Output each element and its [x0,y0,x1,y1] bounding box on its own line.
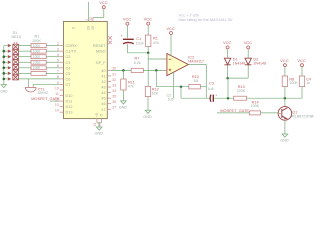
svg-text:MISO: MISO [96,50,106,54]
svg-text:MOSFET_GATE: MOSFET_GATE [31,96,60,101]
svg-text:VCC: VCC [280,58,289,63]
svg-text:MAX9117: MAX9117 [188,60,204,64]
svg-text:15: 15 [93,123,97,127]
svg-text:VCC: VCC [123,16,132,21]
svg-text:42: 42 [101,80,105,84]
svg-text:1u5: 1u5 [208,87,214,91]
svg-text:C0/RX: C0/RX [66,44,78,48]
svg-text:10uF: 10uF [136,41,145,45]
svg-text:100K: 100K [33,66,41,70]
svg-text:C3: C3 [209,82,214,86]
svg-text:HE10: HE10 [12,35,22,39]
svg-text:D11: D11 [66,100,73,104]
svg-text:41: 41 [101,74,105,78]
svg-text:100K: 100K [33,61,41,65]
svg-text:GP_F: GP_F [96,61,107,65]
svg-text:1u: 1u [306,81,310,85]
svg-text:C4: C4 [66,66,71,70]
svg-text:C7: C7 [66,83,71,87]
svg-text:36: 36 [112,100,116,104]
svg-text:100K: 100K [32,39,41,43]
svg-text:32: 32 [112,78,116,82]
svg-text:1M: 1M [193,79,198,83]
svg-text:Max rating for the MAX1811 5V: Max rating for the MAX1811 5V [179,17,233,22]
svg-text:C1/TX: C1/TX [66,50,77,54]
svg-text:GND: GND [280,139,289,143]
svg-text:D12: D12 [66,105,73,109]
svg-text:6.2k: 6.2k [134,61,141,65]
svg-text:37: 37 [112,106,116,110]
svg-text:9: 9 [72,27,76,29]
svg-text:100K: 100K [33,55,41,59]
svg-text:D10: D10 [66,94,73,98]
svg-text:43: 43 [101,86,105,90]
svg-text:100K: 100K [33,44,41,48]
svg-text:GND: GND [95,132,104,136]
svg-text:10: 10 [91,26,95,30]
svg-text:C6: C6 [66,77,71,81]
svg-text:GND: GND [143,115,152,119]
svg-text:1u5: 1u5 [168,97,174,101]
svg-text:R7: R7 [135,57,140,61]
svg-text:C5: C5 [66,72,71,76]
svg-text:220K: 220K [237,89,246,93]
svg-text:100K: 100K [289,81,298,85]
svg-text:-5: -5 [99,114,103,117]
svg-text:VCC: VCC [297,58,306,63]
svg-text:13: 13 [55,103,59,107]
svg-text:RESET: RESET [93,44,106,48]
svg-text:1N4148: 1N4148 [253,62,266,66]
svg-text:62K: 62K [152,92,159,96]
svg-text:C3: C3 [66,61,71,65]
svg-text:46: 46 [101,102,105,106]
svg-text:R1: R1 [35,35,40,39]
svg-text:GND: GND [119,106,128,110]
svg-text:+: + [215,93,217,97]
svg-text:MOSFET_GATE: MOSFET_GATE [220,108,249,113]
svg-text:35: 35 [112,94,116,98]
svg-text:10: 10 [55,86,59,90]
svg-text:45: 45 [101,97,105,101]
svg-text:+5: +5 [95,113,99,117]
svg-text:VCC: VCC [223,40,232,45]
svg-text:D13: D13 [66,111,73,115]
svg-text:IRLB8721PBF: IRLB8721PBF [291,115,315,119]
svg-text:47k: 47k [128,85,134,89]
svg-text:VCC: VCC [244,40,253,45]
svg-text:GND: GND [0,90,8,94]
svg-text:33: 33 [112,83,116,87]
svg-text:C2: C2 [66,55,71,59]
svg-text:100K: 100K [251,104,260,108]
svg-text:100K: 100K [33,50,41,54]
svg-text:14: 14 [55,109,59,113]
svg-text:47: 47 [101,108,105,112]
svg-text:32: 32 [89,17,93,21]
svg-text:32KHZ: 32KHZ [38,91,49,95]
svg-text:44: 44 [101,91,105,95]
svg-text:31: 31 [112,72,116,76]
svg-text:40: 40 [101,69,105,73]
svg-text:VCC: VCC [144,16,153,21]
svg-text:34: 34 [112,89,116,93]
svg-text:47k: 47k [153,41,159,45]
svg-text:16: 16 [98,123,102,127]
svg-text:1N4148: 1N4148 [233,62,246,66]
svg-text:VCC: VCC [99,0,108,5]
svg-text:VCC: VCC [166,26,175,31]
